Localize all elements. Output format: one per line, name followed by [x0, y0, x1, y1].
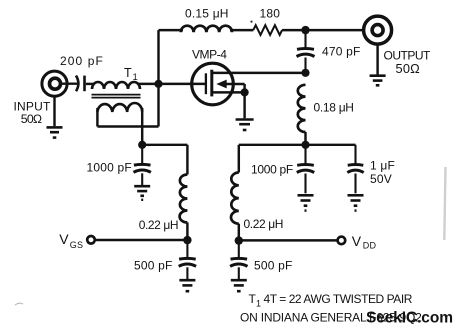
svg-text:GS: GS — [70, 240, 83, 250]
wire L2 to supply node — [304, 132, 306, 145]
ground (500 pF right) — [231, 280, 247, 291]
label OUTPUT 50 ohm — [384, 49, 432, 77]
wire gate node up to top rail — [157, 30, 159, 126]
svg-text:180: 180 — [260, 7, 281, 21]
transformer T1 primary winding — [92, 82, 140, 89]
svg-text:50Ω: 50Ω — [396, 61, 421, 76]
speck — [250, 21, 252, 23]
wire output connector to ground — [376, 44, 378, 74]
transistor Q1 VMP-4 — [192, 63, 245, 105]
wire L1 to R1 — [230, 29, 253, 31]
svg-text:V: V — [352, 233, 362, 249]
wire R1 to top node — [282, 29, 305, 31]
node VGS junction — [183, 236, 191, 244]
svg-text:1 μF: 1 μF — [370, 159, 395, 173]
wire bias node to L3 — [142, 144, 187, 146]
label VDD — [352, 233, 377, 251]
wire T1 secondary right lead down to bias node — [141, 108, 143, 145]
svg-text:1000 pF: 1000 pF — [87, 160, 132, 174]
ground (1000 pF left) — [134, 186, 150, 200]
resistor R1 180 — [253, 25, 282, 35]
svg-text:500 pF: 500 pF — [254, 259, 293, 273]
svg-text:470 pF: 470 pF — [322, 45, 361, 59]
svg-text:1: 1 — [256, 299, 261, 309]
svg-text:SeekIC.com: SeekIC.com — [366, 310, 453, 327]
wire T1 primary to gate node — [138, 83, 158, 85]
terminal VDD — [338, 237, 346, 245]
inductor L1 0.15 uH — [181, 26, 232, 33]
capacitor C2 470 pF — [297, 30, 315, 73]
inductor L4 0.22 uH (right) — [231, 173, 239, 224]
connector J1 INPUT — [42, 71, 67, 96]
label VGS — [59, 231, 83, 250]
ground (input) — [47, 127, 63, 137]
svg-text:1000 pF: 1000 pF — [251, 163, 293, 177]
label INPUT 50 ohm — [14, 100, 51, 127]
wire input connector to C1 — [61, 82, 77, 84]
capacitor C6 1 uF 50V — [347, 145, 363, 194]
wire supply rail — [239, 144, 356, 146]
transformer T1 secondary winding — [97, 103, 142, 112]
capacitor C1 200 pF — [76, 76, 85, 92]
wire gate node to Q1 gate — [159, 83, 206, 85]
wire input connector to ground — [53, 96, 55, 126]
capacitor C7 500 pF (right) — [230, 241, 247, 279]
wire L4 to VDD node — [238, 224, 240, 241]
note line 1 — [249, 292, 413, 309]
svg-text:200 pF: 200 pF — [60, 54, 104, 68]
capacitor C4 500 pF (left) — [179, 240, 196, 279]
wire VGS node to terminal — [96, 239, 188, 241]
node VDD junction — [235, 236, 243, 244]
capacitor C5 1000 pF (right) — [297, 145, 314, 194]
node drain junction — [301, 69, 309, 77]
svg-text:0.22 μH: 0.22 μH — [139, 218, 178, 232]
wire down to L3 — [186, 145, 188, 175]
svg-text:0.22 μH: 0.22 μH — [244, 217, 283, 231]
ground (500 pF left) — [179, 280, 195, 291]
label T1 — [124, 66, 138, 83]
wire source to ground — [243, 92, 245, 118]
svg-text:V: V — [59, 231, 69, 247]
connector J2 OUTPUT — [364, 16, 392, 44]
faint streak — [444, 167, 445, 240]
ground (source) — [236, 120, 254, 131]
wire supply rail left end down to L4 — [238, 145, 240, 173]
svg-text:4T = 22 AWG TWISTED PAIR: 4T = 22 AWG TWISTED PAIR — [264, 292, 413, 306]
wire top node to output connector — [306, 29, 364, 31]
svg-text:0.15 μH: 0.15 μH — [185, 7, 229, 21]
transformer T1 core — [92, 95, 141, 98]
svg-text:DD: DD — [363, 241, 377, 251]
node top junction — [301, 26, 309, 34]
label 1 uF 50V — [370, 159, 395, 187]
terminal VGS — [87, 236, 95, 244]
svg-text:50V: 50V — [370, 172, 392, 186]
svg-text:0.18 μH: 0.18 μH — [314, 101, 354, 115]
node supply junction — [301, 141, 309, 149]
node source junction — [241, 88, 249, 96]
svg-text:VMP-4: VMP-4 — [192, 48, 227, 62]
svg-text:50Ω: 50Ω — [21, 112, 42, 126]
wire L3 to VGS node — [186, 223, 188, 241]
wire top rail left — [159, 29, 184, 31]
node gate bias junction — [138, 141, 146, 149]
svg-text:T: T — [124, 66, 132, 80]
ground (1 uF) — [348, 195, 364, 210]
wire C1 to T1 — [86, 83, 94, 85]
inductor L2 0.18 uH — [298, 85, 306, 132]
wire T1 bottom rail — [97, 125, 158, 127]
svg-text:500 pF: 500 pF — [134, 259, 173, 273]
capacitor C3 1000 pF (left) — [134, 145, 151, 185]
ground (output) — [370, 76, 386, 86]
inductor L3 0.22 uH (left) — [180, 175, 188, 223]
node gate junction — [154, 80, 162, 88]
ground (1000 pF right) — [298, 195, 314, 210]
wire T1 secondary left lead down — [96, 108, 98, 127]
svg-text:1: 1 — [133, 72, 138, 83]
wire VDD node to terminal — [239, 239, 337, 241]
wire drain — [212, 72, 306, 74]
